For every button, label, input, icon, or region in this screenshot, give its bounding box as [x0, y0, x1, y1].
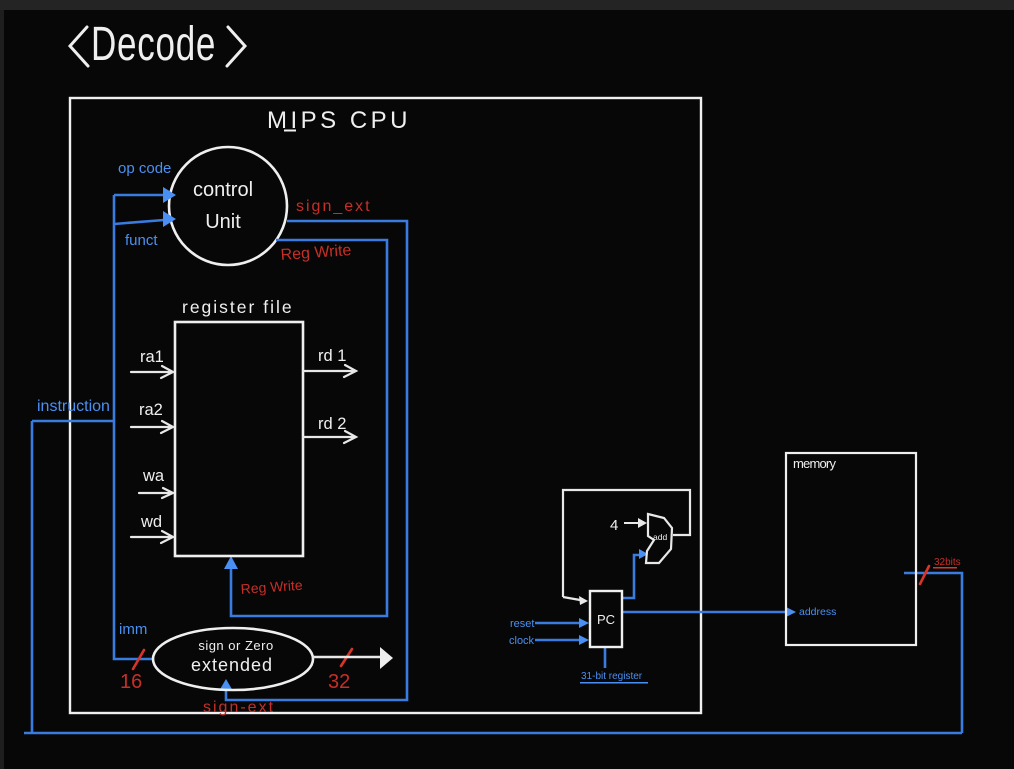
svg-text:ra1: ra1 — [140, 348, 164, 366]
svg-text:wd: wd — [140, 513, 162, 531]
svg-text:address: address — [799, 606, 836, 618]
svg-text:sign or Zero: sign or Zero — [198, 638, 273, 653]
svg-text:31-bit register: 31-bit register — [581, 671, 643, 682]
svg-text:4: 4 — [610, 517, 618, 534]
svg-text:32: 32 — [328, 671, 350, 693]
svg-text:sign_ext: sign_ext — [296, 198, 372, 215]
svg-text:memory: memory — [793, 456, 836, 471]
svg-text:control: control — [193, 179, 253, 201]
svg-text:extended: extended — [191, 655, 273, 675]
svg-text:imm: imm — [119, 621, 147, 638]
svg-text:op code: op code — [118, 160, 171, 177]
svg-text:add: add — [653, 532, 667, 542]
svg-text:16: 16 — [120, 671, 142, 693]
svg-text:32bits: 32bits — [934, 557, 961, 568]
svg-text:Decode: Decode — [91, 17, 216, 71]
svg-text:Unit: Unit — [205, 211, 241, 233]
svg-text:instruction: instruction — [37, 398, 110, 415]
svg-text:funct: funct — [125, 232, 158, 249]
svg-text:sign-ext: sign-ext — [203, 699, 275, 716]
svg-text:reset: reset — [510, 618, 534, 630]
svg-text:wa: wa — [142, 467, 165, 485]
svg-text:ra2: ra2 — [139, 401, 163, 419]
svg-text:clock: clock — [509, 635, 535, 647]
svg-text:rd 2: rd 2 — [318, 415, 346, 433]
svg-text:register file: register file — [182, 297, 294, 317]
svg-text:rd 1: rd 1 — [318, 347, 346, 365]
svg-text:PC: PC — [597, 612, 615, 627]
